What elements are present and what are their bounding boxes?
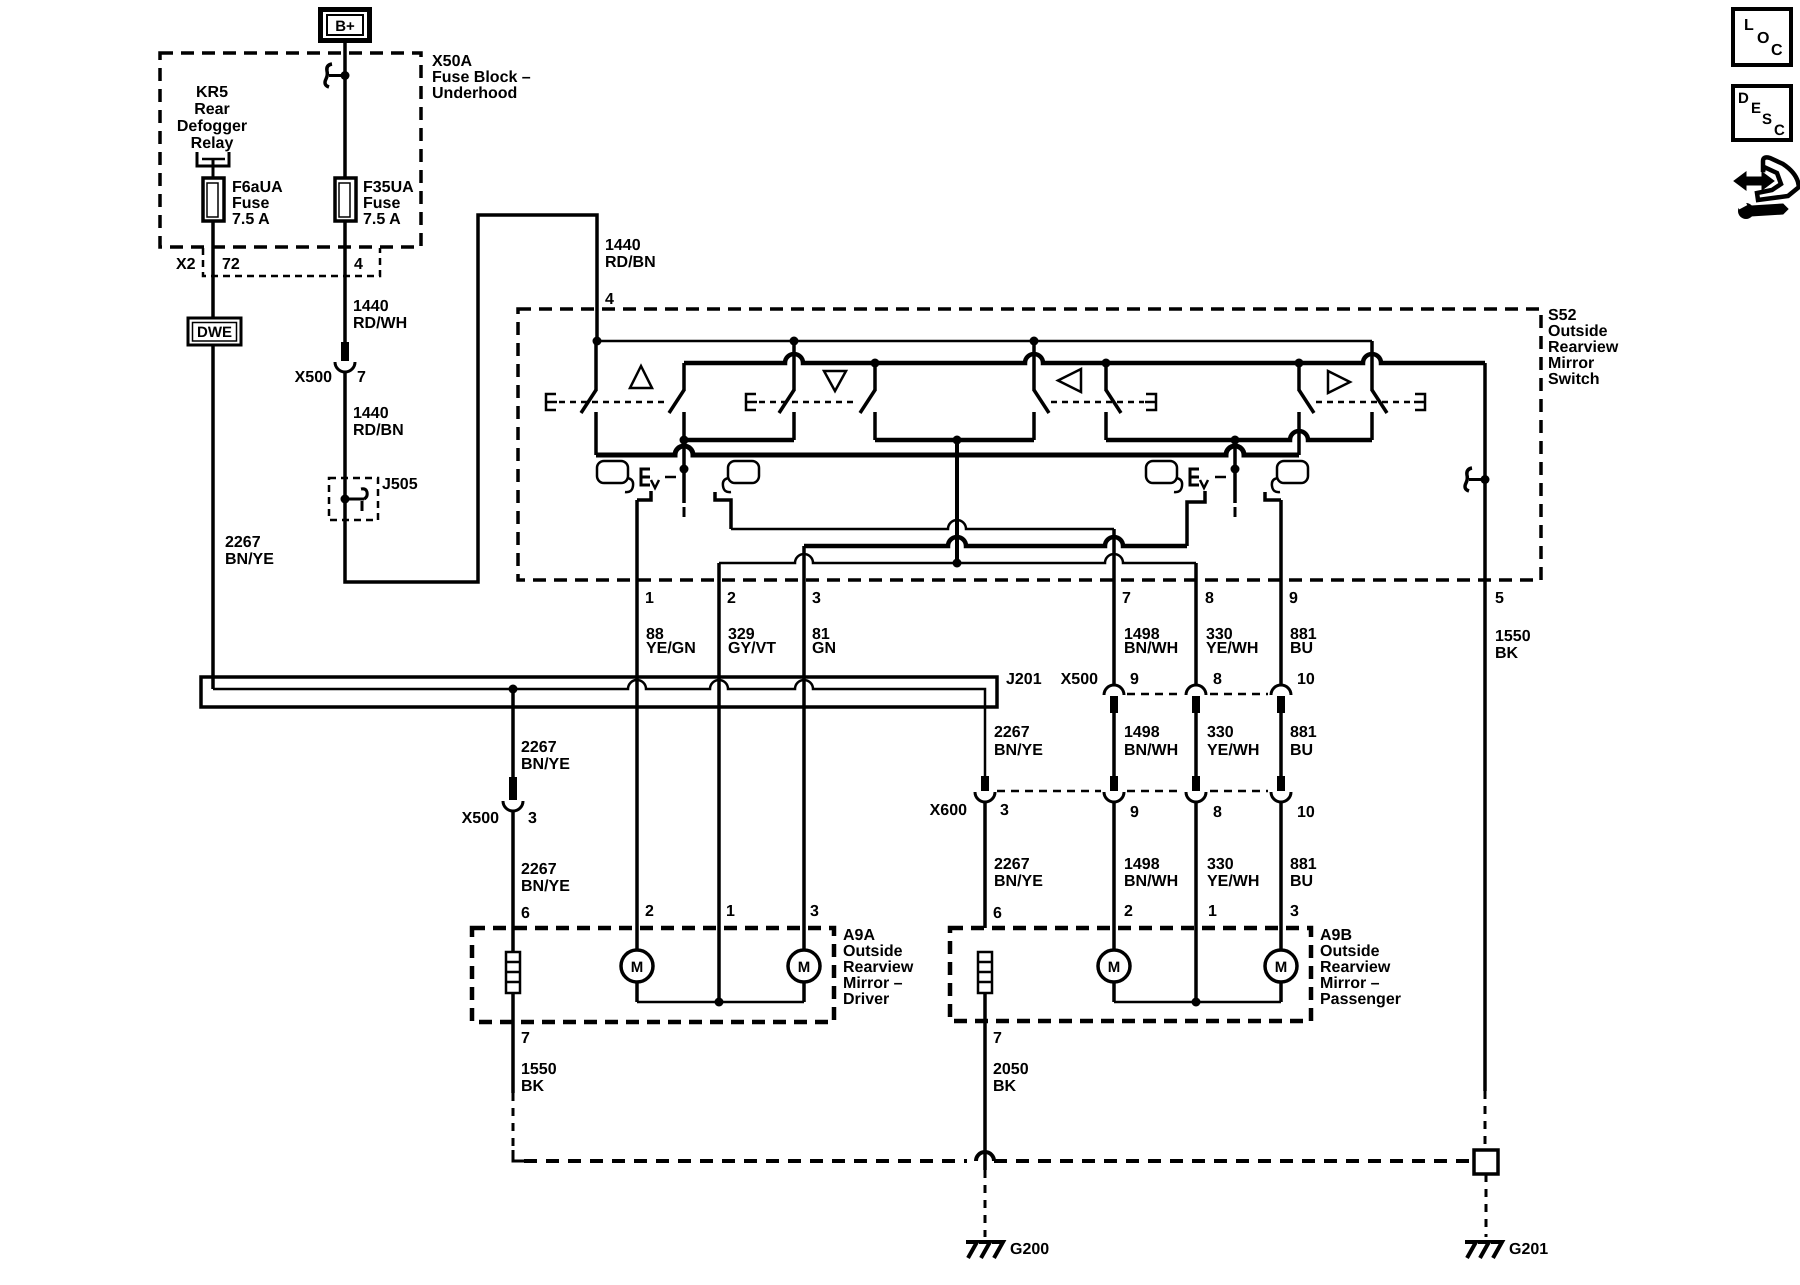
svg-text:B+: B+: [335, 18, 355, 35]
svg-text:4: 4: [354, 256, 363, 273]
svg-text:BN/YE: BN/YE: [225, 551, 274, 568]
wire fuse F6aUA to DWE: [211, 221, 215, 318]
svg-text:1498: 1498: [1124, 724, 1160, 741]
motor M driver horizontal: [788, 950, 820, 982]
crossover H1 to pin 7: [731, 520, 1114, 529]
linkage bracket E section 1: [546, 394, 557, 410]
battery B+ terminal: [321, 10, 370, 41]
svg-text:7: 7: [521, 1030, 530, 1047]
svg-text:BK: BK: [521, 1078, 545, 1095]
svg-text:G200: G200: [1010, 1241, 1049, 1258]
switch blade S3a left-left: [1032, 341, 1036, 391]
component DWE box: [188, 318, 241, 345]
svg-text:GN: GN: [812, 640, 836, 657]
wire 2267 BN/YE DWE to J201: [211, 345, 215, 689]
svg-text:2: 2: [1124, 903, 1133, 920]
svg-text:Fuse: Fuse: [232, 195, 269, 212]
svg-text:X600: X600: [930, 802, 967, 819]
svg-text:1498: 1498: [1124, 856, 1160, 873]
resistor in A9B: [978, 952, 992, 993]
wire 1550 BK A9A pin7: [511, 993, 515, 1093]
LOC reference box: [1733, 9, 1791, 65]
svg-text:6: 6: [993, 905, 1002, 922]
splice pack J201: [201, 677, 997, 707]
label Ev passenger: [1190, 469, 1199, 485]
svg-text:7: 7: [1122, 590, 1131, 607]
svg-text:7: 7: [993, 1030, 1002, 1047]
dashed ground path 1550 BK to G201: [513, 1150, 524, 1161]
svg-text:Outside: Outside: [1320, 943, 1380, 960]
resistor in A9A: [506, 952, 520, 993]
motor common link A9B: [1114, 1001, 1281, 1004]
svg-text:M: M: [631, 959, 644, 976]
dashed connector line X500 row: [1127, 693, 1183, 696]
connector X500 pin 8: [1186, 685, 1206, 695]
splice J505 symbol: [341, 495, 350, 504]
wire 88 YE/GN pin1 to A9A: [635, 500, 639, 950]
wire 81 GN pin3 to A9A: [802, 546, 806, 950]
svg-text:YE/WH: YE/WH: [1206, 640, 1258, 657]
svg-text:Outside: Outside: [843, 943, 903, 960]
linkage dashed section 2: [759, 401, 858, 404]
svg-text:A9B: A9B: [1320, 927, 1352, 944]
svg-text:7.5 A: 7.5 A: [363, 211, 401, 228]
switch blade S2a down-left: [792, 341, 796, 391]
wire 330 YE/WH pin8 run: [1194, 563, 1198, 685]
crossover H2 pin3 to icon3: [804, 537, 1187, 546]
svg-text:Mirror: Mirror: [1548, 355, 1594, 372]
switch blade S4b right-right: [1370, 341, 1374, 391]
svg-text:GY/VT: GY/VT: [728, 640, 776, 657]
arrow outline icon: [1757, 157, 1799, 200]
svg-text:Defogger: Defogger: [177, 118, 247, 135]
svg-text:BU: BU: [1290, 640, 1313, 657]
svg-text:330: 330: [1207, 724, 1234, 741]
svg-text:L: L: [1744, 17, 1754, 34]
connector X2 dashed box: [203, 248, 380, 276]
wire 1550 BK pin 5 inside S52: [1483, 363, 1487, 1091]
mirror icon passenger vertical: [1146, 461, 1177, 483]
svg-text:M: M: [1108, 959, 1121, 976]
ground G201 symbol: [1465, 1242, 1502, 1258]
svg-text:10: 10: [1297, 671, 1315, 688]
svg-text:1440: 1440: [353, 298, 389, 315]
svg-text:BU: BU: [1290, 742, 1313, 759]
svg-text:72: 72: [222, 256, 240, 273]
svg-text:3: 3: [810, 903, 819, 920]
mirror icon driver horizontal: [728, 461, 759, 483]
motor M passenger vertical: [1098, 950, 1130, 982]
svg-text:881: 881: [1290, 856, 1317, 873]
wire 2050 BK A9B pin7: [983, 993, 987, 1170]
svg-text:YE/WH: YE/WH: [1207, 873, 1259, 890]
splice box near G201: [1474, 1150, 1498, 1174]
svg-text:X500: X500: [462, 810, 499, 827]
svg-text:BU: BU: [1290, 873, 1313, 890]
svg-text:D: D: [1738, 90, 1749, 107]
link line L2 blade bottoms 2b-3a: [875, 438, 1034, 443]
svg-text:2267: 2267: [994, 856, 1030, 873]
svg-text:X500: X500: [1061, 671, 1098, 688]
connector X600 pin 3: [981, 776, 989, 791]
connector X600 pin 9: [1110, 776, 1118, 791]
switch blade S3b left-right: [1104, 363, 1108, 391]
link line L3 blade bottoms 3b-4b: [1106, 431, 1372, 440]
switch S52 dashed box: [518, 309, 1541, 580]
svg-text:Relay: Relay: [191, 135, 234, 152]
svg-text:BK: BK: [993, 1078, 1017, 1095]
wire 2267 BN/YE X500 to A9A: [511, 811, 515, 952]
left arrow symbol: [1058, 369, 1081, 392]
svg-text:S52: S52: [1548, 307, 1577, 324]
wire 2267 BN/YE J201 to X500: [511, 689, 515, 777]
svg-text:Fuse Block –: Fuse Block –: [432, 69, 531, 86]
fuse F6aUA: [203, 178, 224, 221]
svg-text:Rearview: Rearview: [843, 959, 914, 976]
svg-text:RD/BN: RD/BN: [353, 422, 404, 439]
svg-text:1550: 1550: [521, 1061, 557, 1078]
wire 2050 BK dashed drop to G200: [984, 1170, 987, 1237]
svg-text:2267: 2267: [994, 724, 1030, 741]
svg-text:9: 9: [1130, 671, 1139, 688]
connector X500 pin 7: [341, 342, 349, 361]
wire 1440 RD/BN J505 to S52 pin 4: [345, 215, 597, 582]
motor common link A9A: [637, 1001, 804, 1004]
svg-text:J201: J201: [1006, 671, 1042, 688]
bus A top feed rail in S52: [597, 340, 1372, 343]
svg-text:2267: 2267: [225, 534, 261, 551]
svg-text:M: M: [1275, 959, 1288, 976]
svg-text:M: M: [798, 959, 811, 976]
linkage bracket E section 3: [1145, 394, 1156, 410]
splice J505 dashed box: [329, 478, 378, 520]
svg-text:X50A: X50A: [432, 53, 472, 70]
svg-text:10: 10: [1297, 804, 1315, 821]
svg-text:E: E: [1751, 100, 1761, 117]
svg-text:881: 881: [1290, 724, 1317, 741]
svg-text:8: 8: [1213, 671, 1222, 688]
svg-text:X500: X500: [295, 369, 332, 386]
linkage dashed section 4: [1316, 401, 1413, 404]
svg-text:2: 2: [645, 903, 654, 920]
svg-text:2267: 2267: [521, 739, 557, 756]
connector hook on pin 5 wire: [1465, 468, 1472, 491]
svg-text:8: 8: [1205, 590, 1214, 607]
svg-text:BN/YE: BN/YE: [521, 878, 570, 895]
linkage dashed section 3: [1051, 401, 1144, 404]
svg-text:BN/WH: BN/WH: [1124, 640, 1178, 657]
svg-text:BK: BK: [1495, 645, 1519, 662]
svg-text:2267: 2267: [521, 861, 557, 878]
ground G200 symbol: [966, 1242, 1003, 1258]
svg-text:Rearview: Rearview: [1320, 959, 1391, 976]
svg-text:Underhood: Underhood: [432, 85, 517, 102]
svg-text:1550: 1550: [1495, 628, 1531, 645]
svg-text:RD/BN: RD/BN: [605, 254, 656, 271]
svg-text:1: 1: [726, 903, 735, 920]
svg-text:BN/YE: BN/YE: [521, 756, 570, 773]
svg-text:S: S: [1762, 111, 1772, 128]
svg-text:3: 3: [528, 810, 537, 827]
svg-text:2: 2: [727, 590, 736, 607]
svg-text:1440: 1440: [605, 237, 641, 254]
svg-text:C: C: [1771, 42, 1783, 59]
linkage dashed section 1: [559, 401, 666, 404]
fuse F35UA: [335, 178, 356, 221]
dashed connector line X600 row: [997, 790, 1101, 793]
switch blade S1a up-left: [594, 341, 598, 391]
svg-text:F35UA: F35UA: [363, 179, 414, 196]
connector X500 pin 9: [1104, 685, 1124, 695]
switch blade S2b down-right: [873, 363, 877, 391]
svg-text:DWE: DWE: [197, 324, 232, 341]
svg-text:4: 4: [605, 291, 614, 308]
wire 1440 RD/WH fuse F35UA to X500: [343, 221, 347, 342]
svg-text:F6aUA: F6aUA: [232, 179, 283, 196]
svg-text:KR5: KR5: [196, 84, 228, 101]
linkage bracket E section 4: [1414, 394, 1425, 410]
svg-text:Rearview: Rearview: [1548, 339, 1619, 356]
svg-text:2050: 2050: [993, 1061, 1029, 1078]
svg-text:YE/GN: YE/GN: [646, 640, 696, 657]
wire icon3 to H2: [1187, 491, 1205, 546]
connector X500 pin 3: [509, 777, 517, 800]
svg-text:6: 6: [521, 905, 530, 922]
fuse block X50A dashed box: [160, 53, 421, 247]
svg-text:Mirror –: Mirror –: [1320, 975, 1380, 992]
svg-text:BN/WH: BN/WH: [1124, 742, 1178, 759]
motor M passenger horizontal: [1265, 950, 1297, 982]
svg-text:RD/WH: RD/WH: [353, 315, 407, 332]
crossover H3 pin2 to pin8: [719, 554, 1196, 563]
up arrow symbol: [630, 366, 652, 388]
svg-text:BN/YE: BN/YE: [994, 873, 1043, 890]
wire X500 to J505: [343, 372, 347, 520]
svg-text:5: 5: [1495, 590, 1504, 607]
svg-text:8: 8: [1213, 804, 1222, 821]
wire B+ to fuse F35UA: [343, 43, 347, 178]
wire pin 9 start: [1265, 492, 1281, 500]
svg-text:J505: J505: [382, 476, 418, 493]
linkage dot and dashes at 1235: [1233, 440, 1237, 503]
svg-text:330: 330: [1207, 856, 1234, 873]
connector hook at fuse block feed: [325, 64, 332, 87]
wire 881 BU pin9 run: [1279, 500, 1283, 685]
svg-text:Outside: Outside: [1548, 323, 1608, 340]
wire 329 GY/VT pin2 to A9A: [717, 563, 721, 1002]
svg-text:3: 3: [812, 590, 821, 607]
wire S52 pin 1 start: [637, 491, 651, 500]
svg-text:Passenger: Passenger: [1320, 991, 1401, 1008]
bus B second rail in S52: [684, 354, 1485, 363]
label Ev driver: [641, 469, 650, 485]
svg-text:7.5 A: 7.5 A: [232, 211, 270, 228]
connector X600 pin 8: [1192, 776, 1200, 791]
wire icon2 to H1: [715, 492, 731, 529]
connector X500 pin 10: [1271, 685, 1291, 695]
DESC reference box: [1733, 86, 1791, 140]
switch blade S1b up-right: [682, 363, 686, 391]
wrench icon: [1738, 203, 1754, 219]
svg-text:BN/WH: BN/WH: [1124, 873, 1178, 890]
svg-text:Mirror –: Mirror –: [843, 975, 903, 992]
right arrow symbol: [1328, 371, 1350, 393]
svg-text:Switch: Switch: [1548, 371, 1600, 388]
bottom common bus in S52: [596, 446, 1299, 455]
mirror icon passenger horizontal: [1277, 461, 1308, 483]
linkage dot and dashes at 684: [680, 465, 689, 474]
svg-text:A9A: A9A: [843, 927, 875, 944]
wire 1550 BK dashed to splice box: [1484, 1091, 1487, 1150]
mirror A9A dashed box: [472, 928, 834, 1022]
svg-text:C: C: [1774, 122, 1785, 139]
svg-text:1: 1: [1208, 903, 1217, 920]
double arrow icon: [1734, 172, 1774, 190]
mirror icon driver vertical: [597, 461, 628, 483]
svg-text:Driver: Driver: [843, 991, 889, 1008]
svg-text:9: 9: [1130, 804, 1139, 821]
svg-text:BN/YE: BN/YE: [994, 742, 1043, 759]
center tap wire: [955, 440, 959, 563]
svg-text:9: 9: [1289, 590, 1298, 607]
svg-text:3: 3: [1290, 903, 1299, 920]
dashed drop to G201: [1485, 1174, 1488, 1237]
connector X600 pin 10: [1277, 776, 1285, 791]
svg-text:Fuse: Fuse: [363, 195, 400, 212]
svg-text:O: O: [1757, 30, 1769, 47]
link line L1 blade bottoms 1b-2a: [684, 438, 794, 443]
svg-text:G201: G201: [1509, 1241, 1548, 1258]
svg-text:1: 1: [645, 590, 654, 607]
svg-text:7: 7: [357, 369, 366, 386]
svg-text:X2: X2: [176, 256, 196, 273]
down arrow symbol: [824, 371, 846, 391]
wire 1498 BN/WH pin7 run: [1112, 529, 1116, 685]
mirror A9B dashed box: [950, 928, 1311, 1021]
svg-text:3: 3: [1000, 802, 1009, 819]
svg-text:YE/WH: YE/WH: [1207, 742, 1259, 759]
relay KR5 contact symbol: [197, 152, 229, 166]
linkage bracket E section 2: [746, 394, 757, 410]
svg-text:1440: 1440: [353, 405, 389, 422]
motor M driver vertical: [621, 950, 653, 982]
svg-text:Rear: Rear: [194, 101, 230, 118]
switch blade S4a right-left: [1297, 363, 1301, 391]
